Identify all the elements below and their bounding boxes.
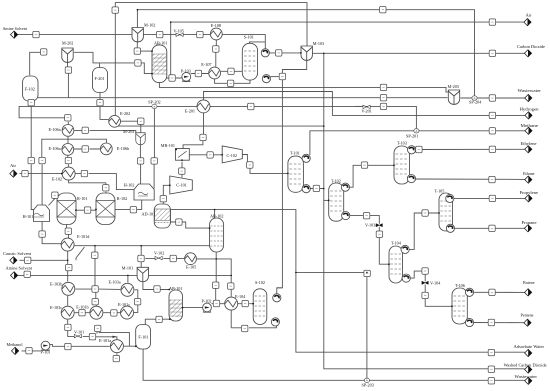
svg-text:E-103a: E-103a bbox=[109, 280, 121, 285]
wire P-102 to E-104 bbox=[211, 303, 224, 305]
stream tag E-104 bottoms bbox=[242, 325, 248, 331]
svg-text:Hydrogen: Hydrogen bbox=[520, 106, 540, 111]
stream tag E-101a wrap bbox=[95, 325, 101, 331]
wire Amine Solvent feed y=275.4 to M-101 bbox=[18, 274, 138, 276]
wire E-108 to S-101 condenser bbox=[222, 35, 265, 49]
stream tag E-108 in bbox=[197, 31, 203, 37]
stream tag E-104 out bbox=[242, 300, 248, 306]
svg-text:T-103: T-103 bbox=[397, 140, 407, 145]
wire C-102 to T-101 feed bbox=[242, 155, 288, 174]
svg-text:E-106a: E-106a bbox=[49, 127, 61, 132]
wire M-102 to V-105 to E-108 y=34.6 bbox=[144, 34, 211, 36]
stream tag recycle header mid bbox=[248, 103, 254, 109]
svg-text:P-102: P-102 bbox=[202, 298, 212, 303]
stream tag S-101 bottom bbox=[227, 80, 233, 86]
hx E-202 bbox=[109, 115, 121, 127]
wire Caustic Solvent feed y=260.3 bbox=[20, 259, 68, 261]
flag output Pentene bbox=[524, 319, 531, 326]
pump P-101 bbox=[41, 341, 50, 350]
valve V-101 bbox=[74, 334, 81, 337]
wire E-107 to S-101 feed bbox=[221, 70, 242, 72]
flag input Caustic Solvent bbox=[10, 257, 17, 264]
wire T-106 condenser to Butene outlet bbox=[473, 291, 524, 293]
flag output Methane bbox=[525, 127, 532, 134]
wire C-101 to MB-101 bbox=[181, 162, 183, 178]
wire M-103 to Carbon Dioxide outlet y=53.3 bbox=[313, 52, 525, 54]
wire E-107 bottom to S-101 bottom y=83.3 bbox=[215, 79, 250, 83]
column S-101 bbox=[242, 43, 257, 80]
flag input Amine Solvent bbox=[11, 31, 18, 38]
flag output Hydrogen bbox=[525, 112, 532, 119]
stream tag E-106a2 bottoms bbox=[65, 157, 71, 163]
stream tag H-101 fuel b bbox=[39, 157, 45, 163]
wire SP-202 drop to H-102 bbox=[153, 109, 155, 189]
svg-text:S-101: S-101 bbox=[244, 35, 254, 40]
stream tag F-201 bottoms bbox=[97, 100, 103, 106]
wire T-102 condenser to T-103 feed bbox=[350, 165, 395, 187]
svg-text:C-101: C-101 bbox=[176, 183, 186, 188]
stream tag E-106a2 out bbox=[82, 146, 88, 152]
stream tag V-102 feed bbox=[138, 255, 144, 261]
stream tag H-101 bottoms bbox=[39, 231, 45, 237]
hx E-106b bbox=[100, 143, 112, 155]
stream tag T-104 ovhd bbox=[422, 210, 428, 216]
svg-text:Air: Air bbox=[526, 13, 532, 18]
svg-text:Air: Air bbox=[10, 163, 16, 168]
wire AB-102 bottoms long header y=245.7 bbox=[74, 245, 210, 247]
svg-text:E-102: E-102 bbox=[52, 176, 62, 181]
wire E-103b to E-103c drop bbox=[67, 296, 69, 306]
splitter SP-201 bbox=[414, 129, 419, 133]
hx E-201 bbox=[197, 100, 210, 113]
wire R-102 to H-102 bottom riser bbox=[115, 200, 142, 209]
stream tag R-101 bottoms bbox=[65, 228, 71, 234]
wire F-102 bottoms drop to H-101 bbox=[31, 100, 33, 210]
wire S-102 condenser riser to x=282.4 bbox=[277, 288, 283, 294]
svg-text:R-101: R-101 bbox=[77, 196, 87, 201]
wire AB-101b to P-102 bbox=[183, 307, 203, 309]
wire H-101 to R-101 bbox=[49, 195, 61, 205]
wire riser x=323.8 CO2 wash train bbox=[324, 53, 525, 369]
wire E-101a bottom stub bbox=[116, 353, 118, 355]
stream tag row bottom b bbox=[111, 310, 117, 316]
hx E-107 bbox=[209, 67, 221, 79]
stream tag CO2 out bbox=[489, 50, 495, 56]
stream tag methane out bbox=[489, 128, 495, 134]
wire M-102 overhead header y=9.7 to SP-204 bbox=[137, 10, 474, 96]
mixer M-202 bbox=[62, 48, 73, 62]
vessel F-102 bbox=[23, 76, 38, 101]
svg-text:SP-204: SP-204 bbox=[469, 100, 482, 105]
wire T-101 reboiler to riser bbox=[310, 188, 324, 190]
stream tag H-101 feed bbox=[28, 100, 34, 106]
hx E-104 bbox=[225, 297, 238, 310]
wire E-103b to E-103a y=289.1 bbox=[76, 288, 121, 290]
column AB-101b bbox=[169, 290, 183, 321]
svg-text:Propane: Propane bbox=[522, 220, 537, 225]
mixer M-101 bbox=[137, 267, 148, 281]
stream tag H-101 fuel a bbox=[28, 157, 34, 163]
stream tag E-108 bottoms bbox=[213, 46, 219, 52]
mixer M-102 bbox=[132, 28, 143, 42]
wire recycle header y=106.4 left elbow to E-106a box bbox=[19, 106, 416, 128]
svg-text:AB-101: AB-101 bbox=[154, 40, 168, 45]
svg-text:M-203: M-203 bbox=[448, 84, 459, 89]
valve V-104 bbox=[422, 281, 428, 284]
wire T-103 reboiler to Ethane outlet bbox=[416, 178, 526, 180]
stream tag R-101 out bbox=[84, 207, 90, 213]
svg-text:M-103: M-103 bbox=[313, 41, 324, 46]
stream tag amine2 feed bbox=[24, 271, 30, 277]
stream tag M-101 bottoms bbox=[154, 286, 160, 292]
wire S-101 top loop bbox=[249, 42, 265, 44]
svg-text:T-104: T-104 bbox=[391, 241, 402, 246]
svg-text:V-103: V-103 bbox=[365, 223, 375, 228]
condenser T-103 bbox=[408, 146, 416, 154]
svg-text:MB-101: MB-101 bbox=[161, 143, 175, 148]
mixer M-103 bbox=[301, 46, 312, 60]
stream tag wastewater out bbox=[489, 95, 495, 101]
svg-text:E-101a: E-101a bbox=[99, 338, 111, 343]
svg-text:E-103b: E-103b bbox=[50, 282, 62, 287]
reactor R-101 bbox=[57, 193, 76, 225]
stream tag MB-101 permeate bbox=[207, 152, 213, 158]
wire M-202 to AB-101 lower feed header y=63 bbox=[74, 52, 152, 73]
column S-102 bbox=[253, 289, 267, 325]
reboiler T-101 bbox=[302, 185, 310, 193]
wire E-104 to S-102 feed bbox=[238, 303, 253, 305]
reactor R-102 bbox=[96, 193, 115, 225]
stream tag wastewater2 out bbox=[488, 378, 494, 384]
wire E-106a interstage drop bbox=[67, 137, 69, 143]
hx E-103b bbox=[62, 282, 75, 295]
svg-text:V-104: V-104 bbox=[430, 281, 441, 286]
wire header y=139.2 to E-106b top and H-101 bbox=[42, 139, 107, 205]
hx E-106a bbox=[62, 124, 74, 136]
flag output Ethylene bbox=[525, 146, 532, 153]
svg-text:F-102: F-102 bbox=[25, 87, 35, 92]
svg-text:Pentene: Pentene bbox=[521, 312, 534, 317]
wire AB-101 bottoms long header y=87.4 to M-201 bbox=[159, 83, 447, 92]
stream tag E-107 out bbox=[228, 68, 234, 74]
svg-text:H-102: H-102 bbox=[124, 182, 135, 187]
valve V-103 bbox=[376, 224, 382, 227]
stream tag T-103 condenser out bbox=[416, 146, 422, 152]
stream tag E-103b out bbox=[92, 286, 98, 292]
wire R-101 bottoms to E-101d bbox=[67, 225, 69, 239]
wire S-101 condenser to M-103 y=52.9 bbox=[269, 52, 301, 54]
wire M-101 pass-through to E-104 riser y=275.4 bbox=[149, 274, 232, 276]
column T-101 bbox=[288, 156, 304, 192]
svg-text:E-107: E-107 bbox=[201, 62, 211, 67]
wire S-101 reboiler to junction box bbox=[271, 76, 279, 78]
svg-text:Wastewater: Wastewater bbox=[518, 88, 542, 93]
svg-text:M-203: M-203 bbox=[123, 129, 134, 134]
svg-text:E-101b: E-101b bbox=[76, 304, 88, 309]
wire P-101 to E-101a y=346.3 bbox=[50, 344, 110, 346]
stream tag ethylene out bbox=[489, 146, 495, 152]
stream tag E-106a top bbox=[65, 115, 71, 121]
wire E-105 to AB-102 bottom and E-104 bbox=[197, 259, 232, 297]
reboiler T-103 bbox=[407, 175, 415, 183]
svg-text:E-101c: E-101c bbox=[118, 302, 130, 307]
stream tag AD-101 bottoms bbox=[176, 219, 182, 225]
wire AD-101 top to C-101 bbox=[163, 185, 170, 205]
svg-text:M-202: M-202 bbox=[62, 41, 73, 46]
wire AB-102 overhead tee bbox=[214, 210, 216, 218]
svg-text:E-106b: E-106b bbox=[117, 146, 129, 151]
svg-text:SP-203: SP-203 bbox=[362, 383, 374, 388]
stream tag P-102 out bbox=[213, 300, 219, 306]
stream tag MB-101 bottoms bbox=[179, 168, 185, 174]
hx E-101c bbox=[121, 306, 134, 319]
wire T-101 condenser riser to Methane header y=130.8 bbox=[310, 131, 525, 155]
stream tag T-101 bottoms bbox=[313, 185, 319, 191]
wire E-101a wrap loop bbox=[99, 332, 136, 346]
wire F-201 top tee bbox=[99, 63, 101, 68]
stream tag E-103c bottoms bbox=[65, 324, 71, 330]
hx E-108 bbox=[210, 28, 222, 40]
wire T-106 reboiler to Pentene outlet bbox=[473, 322, 524, 324]
stream tag AB-101 bottom dome bbox=[169, 75, 175, 81]
valve V-105 bbox=[176, 33, 183, 36]
wire E-102 bottom to R-102 top bbox=[69, 180, 106, 194]
flag output Adsorbate Water bbox=[525, 349, 532, 356]
stream tag AB-101 lower feed bbox=[135, 60, 141, 66]
mixer M-203 bbox=[136, 133, 145, 145]
condenser S-101 bbox=[261, 49, 269, 57]
stream tag E-102 bottoms bbox=[103, 185, 109, 191]
svg-text:C-102: C-102 bbox=[227, 153, 237, 158]
wire lean amine drop x=95 to E-101b bbox=[95, 246, 96, 306]
svg-text:Adsorbate Water: Adsorbate Water bbox=[514, 344, 545, 349]
svg-text:V-102: V-102 bbox=[154, 251, 164, 256]
stream tag recycle header bbox=[380, 103, 386, 109]
wire T-102 feed tee y=200.4 bbox=[324, 199, 329, 201]
stream tag F-102 overhead bbox=[380, 95, 386, 101]
wire E-108 drop to E-107 bbox=[215, 40, 218, 67]
flag output Wastewater 2 bbox=[525, 377, 532, 384]
flag input Methanol bbox=[12, 347, 19, 354]
flag output Air bbox=[524, 19, 531, 26]
hx E-102 bbox=[62, 167, 75, 180]
stream tag AD-101 in bbox=[160, 196, 166, 202]
svg-text:R-102: R-102 bbox=[117, 196, 127, 201]
svg-text:E-103c: E-103c bbox=[50, 305, 62, 310]
condenser T-101 bbox=[302, 154, 310, 162]
stream tag butene out bbox=[489, 289, 495, 295]
hx E-101a bbox=[110, 340, 123, 353]
stream tag H-102 fuel a bbox=[137, 158, 143, 164]
condenser T-106 bbox=[465, 288, 473, 296]
stream tag overhead header bbox=[380, 7, 386, 13]
svg-text:P-103: P-103 bbox=[181, 68, 191, 73]
stream tag H-101 to R-101 bbox=[52, 192, 58, 198]
wire MB-101 to C-102 y=154.8 bbox=[189, 154, 222, 156]
column T-103 bbox=[394, 146, 410, 184]
wire AB-101 feed upper bbox=[140, 50, 152, 52]
wire E-101d bottom to E-103b bbox=[67, 251, 69, 281]
svg-text:Washed Carbon Dioxide: Washed Carbon Dioxide bbox=[504, 363, 547, 368]
stream tag E-106a out bbox=[82, 127, 88, 133]
wire V-102 to E-105 bbox=[145, 257, 184, 259]
wire diagonal bypass at E-101d bbox=[76, 247, 85, 260]
stream tag F-101 top bbox=[156, 316, 162, 322]
wire E-202 bottom header y=126.1 to riser x=323.8 bbox=[118, 124, 324, 127]
wire Adsorbate Water outlet bbox=[495, 351, 525, 353]
wire E-102 to H-102 bbox=[75, 174, 134, 190]
column T-104 bbox=[389, 246, 403, 283]
wire Methanol feed to P-101 bbox=[22, 350, 42, 352]
reboiler T-105 bbox=[446, 224, 454, 232]
wire E-106a top box riser bbox=[67, 122, 69, 124]
wire E-201 bottom to MB-101 bbox=[183, 113, 203, 149]
pump P-102 bbox=[203, 303, 212, 312]
wire F-101 top to AB-101b bottoms bbox=[145, 319, 170, 324]
wire AD-101 offgas header y=209.6 to SP-203 bbox=[171, 210, 489, 381]
wire E-106a2 to E-106b y=149 bbox=[74, 148, 100, 150]
svg-text:Methane: Methane bbox=[521, 123, 539, 128]
stream tag air out bbox=[489, 19, 495, 25]
stream tag methanol feed bbox=[26, 348, 32, 354]
reboiler T-104 bbox=[402, 274, 410, 282]
stream tag E-101d bottoms bbox=[66, 264, 72, 270]
wire M-201 via SP-204 to Wastewater outlet y=98 bbox=[461, 97, 525, 99]
stream tag M-102 out bbox=[157, 31, 163, 37]
wire AD-101 bottoms to AB-102 bbox=[170, 222, 209, 228]
svg-text:E-108: E-108 bbox=[211, 23, 221, 28]
stream tag P-101 out bbox=[65, 343, 71, 349]
valve V-102 bbox=[155, 256, 162, 259]
svg-text:H-101: H-101 bbox=[23, 214, 34, 219]
wire Amine Solvent feed y=34.6 to M-102 bbox=[18, 34, 132, 36]
stream tag adsorbate out bbox=[488, 349, 494, 355]
flag output Butene bbox=[525, 289, 532, 296]
svg-text:M-101: M-101 bbox=[122, 266, 133, 271]
stream tag propylene out bbox=[489, 195, 495, 201]
stream tag M-103 bottoms bbox=[279, 73, 285, 79]
svg-text:Propylene: Propylene bbox=[520, 190, 539, 195]
wire E-103c bottom to V-101 to E-101a bbox=[68, 320, 117, 340]
stream tag E-104 feed bbox=[228, 283, 234, 289]
stream tag E-201 bottoms bbox=[200, 134, 206, 140]
svg-text:T-106: T-106 bbox=[455, 283, 465, 288]
stream tag V-101 out bbox=[89, 334, 95, 340]
svg-text:E-101d: E-101d bbox=[77, 234, 90, 239]
svg-text:T-101: T-101 bbox=[290, 150, 300, 155]
stream tag H-102 fuel b bbox=[151, 158, 157, 164]
stream tag pentene out bbox=[488, 319, 494, 325]
condenser S-102 bbox=[273, 294, 281, 302]
pump P-103 bbox=[182, 72, 191, 81]
hx E-105 bbox=[185, 253, 197, 265]
stream tag lean amine a bbox=[92, 252, 98, 258]
column T-105 bbox=[439, 193, 453, 231]
splitter SP-203 bbox=[364, 378, 369, 382]
splitter SP-202 bbox=[152, 104, 157, 108]
wire M-202 feed line bbox=[30, 52, 41, 75]
wire E-202 to M-203 top bbox=[121, 121, 141, 133]
wire M-203 drop to H-102 bbox=[139, 144, 141, 184]
wire T-103 condenser to Ethylene outlet bbox=[416, 148, 525, 150]
svg-text:P-101: P-101 bbox=[41, 350, 51, 355]
svg-text:Wastewater: Wastewater bbox=[515, 374, 538, 379]
svg-text:Ethylene: Ethylene bbox=[521, 141, 537, 146]
stream tag AB-102 drop bbox=[213, 282, 219, 288]
stream tag washed co2 out bbox=[488, 366, 494, 372]
stream tag V-102 out bbox=[170, 255, 176, 261]
column AB-102 bbox=[210, 218, 224, 252]
wire header y=245.7 tee to V-102 and M-101 bbox=[140, 246, 142, 268]
stream tag caustic feed bbox=[25, 257, 31, 263]
column T-102 bbox=[329, 183, 344, 221]
compressor C-102 bbox=[222, 146, 242, 163]
compressor C-101 bbox=[170, 176, 193, 194]
hx E-103c bbox=[61, 306, 74, 319]
wire T-105 reboiler to Propane outlet bbox=[455, 227, 525, 229]
wire V-201 header gap fill bbox=[355, 105, 363, 107]
wire E-202 top riser to M-103 top header y=2.6 bbox=[115, 3, 307, 115]
svg-text:E-104: E-104 bbox=[235, 294, 246, 299]
wire F-201 bottoms to E-202 bbox=[100, 93, 108, 120]
svg-text:V-201: V-201 bbox=[362, 108, 372, 113]
wire E-103a to E-101c bbox=[134, 290, 138, 313]
vessel F-201 bbox=[93, 68, 108, 93]
hx E-103a bbox=[121, 283, 134, 296]
svg-text:T-102: T-102 bbox=[331, 178, 341, 183]
svg-text:F-201: F-201 bbox=[95, 76, 105, 81]
svg-text:Amine Solvent: Amine Solvent bbox=[6, 266, 33, 271]
wire M-102 bottoms drop bbox=[136, 41, 138, 48]
svg-text:M-102: M-102 bbox=[144, 23, 155, 28]
flag input Amine Solvent 2 bbox=[11, 272, 18, 279]
wire amine tee to E-103a top bbox=[127, 275, 129, 282]
valve V-201 bbox=[363, 105, 370, 108]
membrane MB-101 bbox=[175, 149, 189, 162]
condenser T-102 bbox=[341, 183, 349, 191]
stream tag M-202 feed bbox=[41, 49, 47, 55]
svg-text:SP-201: SP-201 bbox=[406, 134, 418, 139]
wire Air feed y=173.6 to E-102 bbox=[20, 173, 62, 175]
stream tag R-102 out bbox=[130, 207, 136, 213]
wire E-106a to M-203 y=130.4 bbox=[74, 130, 135, 133]
stream tag E-103a out bbox=[134, 299, 140, 305]
stream tag T-102 bottoms bbox=[363, 213, 369, 219]
flag output Carbon Dioxide bbox=[524, 50, 531, 57]
svg-text:SP-202: SP-202 bbox=[148, 99, 160, 104]
==COMPONENTS== bbox=[23, 28, 478, 383]
reboiler T-102 bbox=[342, 212, 350, 220]
stream tag P-103 out bbox=[195, 70, 201, 76]
hx E-101d bbox=[61, 238, 74, 251]
svg-text:F-101: F-101 bbox=[138, 335, 148, 340]
reboiler S-101 bbox=[262, 75, 270, 83]
stream tag E-101a bottoms bbox=[113, 355, 119, 361]
svg-text:AB-102: AB-102 bbox=[210, 214, 224, 219]
flag output Washed Carbon Dioxide bbox=[525, 366, 532, 373]
wire bottom HX row y=312.7 bbox=[75, 312, 121, 314]
stream tag E-202 out bbox=[138, 118, 144, 124]
stream tag T-104 feed elbow bbox=[364, 270, 370, 276]
wire E-101a top box stub bbox=[96, 331, 98, 334]
svg-text:S-102: S-102 bbox=[255, 280, 265, 285]
reboiler T-106 bbox=[465, 318, 473, 326]
stream tag row bottom a bbox=[79, 310, 85, 316]
svg-text:E-106a: E-106a bbox=[49, 146, 61, 151]
svg-text:Amine Solvent: Amine Solvent bbox=[3, 26, 28, 31]
svg-text:E-201: E-201 bbox=[185, 109, 195, 114]
stream tag E-101b top bbox=[92, 299, 98, 305]
